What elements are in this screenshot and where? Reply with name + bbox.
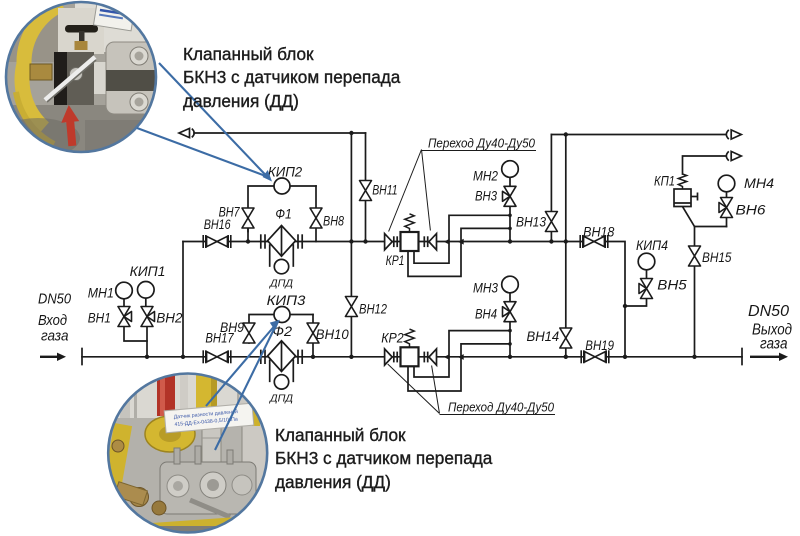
valve BH14 bbox=[560, 328, 572, 348]
svg-text:Вход: Вход bbox=[38, 313, 67, 329]
svg-text:Переход Ду40-Ду50: Переход Ду40-Ду50 bbox=[428, 136, 536, 151]
valve BH10 bbox=[307, 323, 319, 343]
svg-text:газа: газа bbox=[41, 329, 69, 345]
svg-text:ВН8: ВН8 bbox=[323, 213, 344, 229]
gauge KIP4 bbox=[638, 253, 655, 270]
wire: MH3 riser bbox=[509, 293, 511, 357]
three-way valve BH4 bbox=[503, 302, 517, 322]
schematic labels bbox=[88, 136, 774, 415]
photo inset: differential pressure sensor bottom bbox=[102, 372, 270, 536]
DPD sensor of F2 bbox=[274, 375, 288, 389]
valve BH19 bbox=[581, 350, 609, 363]
svg-text:DN50: DN50 bbox=[748, 303, 789, 320]
valve BH18 bbox=[580, 235, 608, 248]
DPD sensor of F1 bbox=[274, 259, 288, 273]
wire: upper branch line bbox=[183, 242, 625, 357]
wire: KR2 impulse line B bbox=[408, 344, 510, 391]
inlet flow arrow bbox=[40, 353, 66, 361]
svg-text:ДПД: ДПД bbox=[269, 393, 294, 405]
wire: vent riser with BH11 bbox=[365, 133, 367, 242]
svg-text:МН3: МН3 bbox=[473, 280, 498, 296]
flow direction arrows on KR1 outlet bbox=[444, 239, 464, 245]
svg-text:ВН13: ВН13 bbox=[516, 214, 546, 230]
gauge MH4 bbox=[718, 175, 735, 192]
wire: BH8 riser bbox=[315, 186, 317, 242]
wire: MH4 stem bbox=[726, 192, 728, 198]
wire: MH2 riser bbox=[509, 177, 511, 241]
svg-text:КР2: КР2 bbox=[381, 329, 404, 345]
valve BH7 bbox=[242, 208, 254, 228]
svg-text:МН2: МН2 bbox=[473, 168, 498, 184]
wire: BH2 stem to main bbox=[146, 327, 148, 357]
wire: F2 DPD sensor taps bbox=[269, 360, 271, 381]
three-way valve BH2 bbox=[141, 307, 155, 327]
svg-text:ВН17: ВН17 bbox=[205, 330, 234, 346]
svg-text:КИП2: КИП2 bbox=[268, 164, 302, 180]
gauge MH1 bbox=[116, 282, 133, 299]
gauge KIP1 bbox=[138, 282, 155, 299]
wire: vent riser with BH12 bbox=[350, 133, 352, 357]
wire: KR2 impulse line A bbox=[414, 331, 510, 377]
wire: BH7 riser lower bbox=[247, 228, 249, 242]
svg-text:КИП4: КИП4 bbox=[636, 237, 668, 253]
wire: outlet tick bbox=[741, 349, 743, 365]
three-way valve BH6 bbox=[719, 198, 733, 218]
valve BH13 bbox=[545, 212, 557, 232]
svg-text:ВН15: ВН15 bbox=[702, 249, 732, 265]
regulator KR2 bbox=[385, 329, 437, 366]
three-way valve BH3 bbox=[503, 186, 517, 206]
gauge MH2 bbox=[502, 161, 519, 178]
valve BH9 bbox=[243, 323, 255, 343]
valve BH17 bbox=[203, 350, 231, 363]
wire: KR1 impulse line B bbox=[408, 228, 510, 276]
svg-text:ВН5: ВН5 bbox=[657, 277, 687, 293]
wire: KIP4 branch bbox=[625, 298, 647, 306]
svg-text:ВН11: ВН11 bbox=[372, 182, 397, 198]
valve BH16 bbox=[203, 235, 231, 248]
wire: left manifold riser bbox=[182, 242, 184, 357]
callout text bottom bbox=[275, 424, 492, 494]
wire: MH1 gauge stem bbox=[123, 299, 125, 307]
svg-text:КИП3: КИП3 bbox=[267, 292, 306, 308]
svg-text:ВН2: ВН2 bbox=[156, 310, 182, 326]
filter F1 bbox=[261, 226, 302, 257]
svg-text:ВН12: ВН12 bbox=[359, 301, 387, 317]
svg-text:Ф1: Ф1 bbox=[275, 206, 291, 222]
wire: KIP1 stem bbox=[145, 298, 147, 307]
wire: left vent header bbox=[194, 132, 366, 134]
wire: BH6 stem bbox=[726, 218, 728, 227]
svg-text:ВН19: ВН19 bbox=[585, 337, 614, 353]
callout leader to KIP3 bbox=[206, 323, 277, 450]
svg-text:ВН16: ВН16 bbox=[204, 216, 231, 232]
gauge KIP2 bbox=[274, 178, 290, 194]
wire: KR1 impulse line A bbox=[414, 215, 510, 263]
wire: KIP2 impulse loop bbox=[248, 186, 274, 232]
svg-text:КИП1: КИП1 bbox=[130, 263, 166, 279]
leader lines to Perekhod label top bbox=[389, 150, 536, 232]
svg-text:ВН10: ВН10 bbox=[316, 326, 349, 342]
svg-text:ВН18: ВН18 bbox=[583, 224, 614, 240]
wire: BH10 riser bbox=[312, 315, 314, 357]
svg-text:ВН4: ВН4 bbox=[475, 306, 497, 322]
svg-text:газа: газа bbox=[760, 336, 788, 353]
valve BH11 bbox=[360, 181, 372, 201]
valve BH12 bbox=[345, 297, 357, 317]
callout leader to KIP2 bbox=[137, 63, 267, 177]
wire: KP1 vent line bbox=[683, 156, 727, 174]
node: DN50 gas inlet bbox=[38, 292, 71, 345]
svg-text:МН4: МН4 bbox=[744, 175, 774, 191]
wire: KP1 outlet slant bbox=[683, 207, 727, 227]
photo inset: valve block BKN3 top left bbox=[0, 0, 170, 165]
wire: KIP3 impulse loop bbox=[249, 315, 274, 344]
gauge KIP3 bbox=[274, 307, 290, 323]
wire: BH15 riser bbox=[694, 227, 696, 357]
wire: inlet tick bbox=[81, 349, 83, 365]
valve BH15 bbox=[689, 246, 701, 266]
wire: riser with BH14 bbox=[565, 135, 567, 357]
left vent arrow bbox=[179, 128, 194, 137]
wire: F1 DPD sensor taps bbox=[269, 245, 271, 266]
svg-text:ВН14: ВН14 bbox=[527, 328, 560, 344]
callout text top bbox=[183, 43, 400, 113]
node: DN50 gas outlet bbox=[748, 303, 792, 353]
right vent arrow top bbox=[726, 130, 741, 139]
svg-text:КР1: КР1 bbox=[386, 252, 405, 268]
gauge MH3 bbox=[502, 276, 519, 293]
svg-text:Переход Ду40-Ду50: Переход Ду40-Ду50 bbox=[448, 400, 555, 415]
outlet flow arrow bbox=[750, 353, 788, 361]
flow direction arrows on KR2 outlet bbox=[444, 354, 464, 360]
svg-text:ВН6: ВН6 bbox=[736, 202, 766, 218]
filter F2 bbox=[261, 341, 302, 372]
three-way valve BH1 bbox=[118, 307, 132, 327]
svg-text:ДПД: ДПД bbox=[269, 278, 294, 290]
svg-text:КП1: КП1 bbox=[654, 173, 675, 189]
valve BH8 bbox=[310, 208, 322, 228]
wire: right vent header bbox=[551, 134, 726, 136]
leader lines to Perekhod label bottom bbox=[388, 364, 555, 415]
wire: KIP4 stem bbox=[646, 270, 648, 279]
three-way valve BH5 bbox=[639, 279, 653, 299]
svg-text:DN50: DN50 bbox=[38, 292, 71, 308]
wire: inlet main line DN50 bbox=[82, 356, 742, 358]
right vent arrow second bbox=[726, 151, 741, 160]
safety valve KP1 bbox=[674, 174, 698, 207]
regulator KR1 bbox=[385, 214, 437, 251]
wire: BH1 lower stem and link bbox=[124, 327, 147, 342]
svg-text:ВН1: ВН1 bbox=[88, 310, 111, 326]
wire: riser with BH13 bbox=[550, 135, 552, 242]
svg-text:ВН3: ВН3 bbox=[475, 188, 497, 204]
svg-text:МН1: МН1 bbox=[88, 285, 114, 301]
